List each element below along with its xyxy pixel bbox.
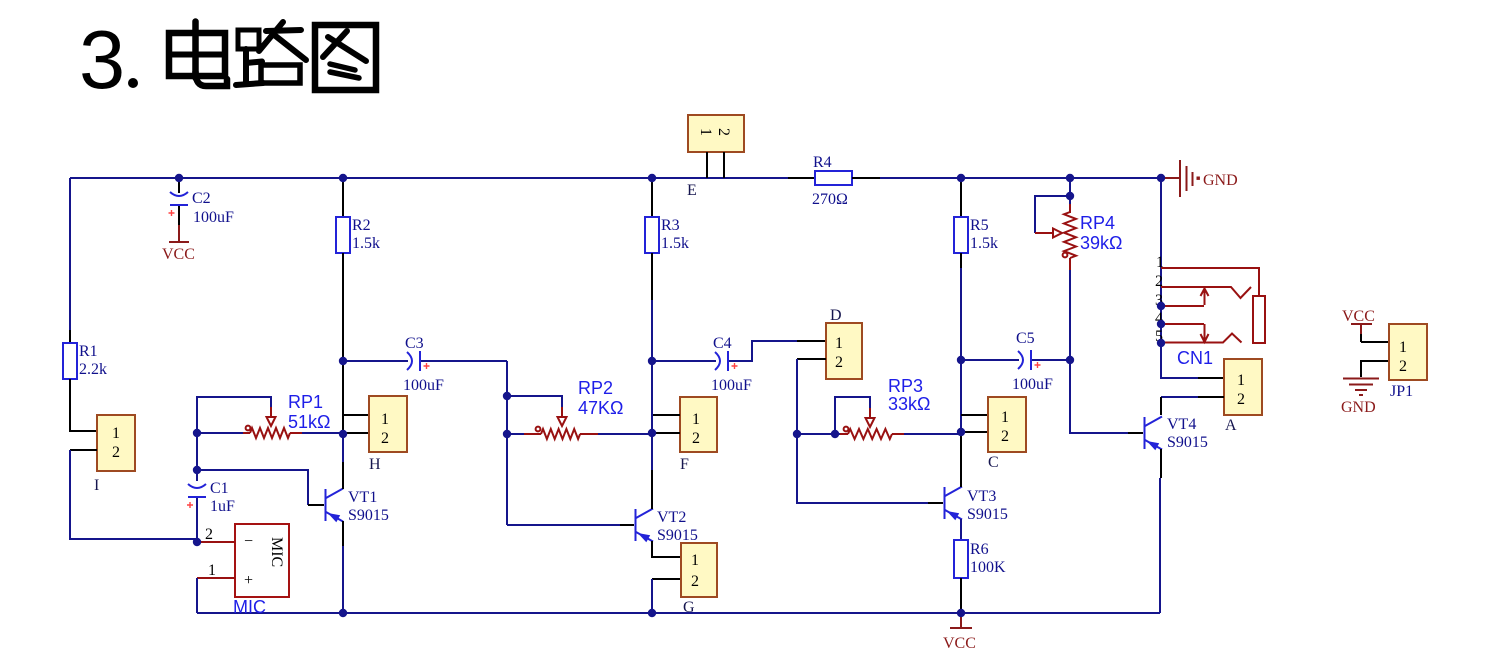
wire R1 black leads: [69, 330, 71, 343]
svg-text:39kΩ: 39kΩ: [1080, 233, 1122, 253]
svg-text:C: C: [988, 454, 999, 471]
svg-text:33kΩ: 33kΩ: [888, 394, 930, 414]
svg-text:−: −: [244, 533, 253, 550]
wire CN1 column: [1160, 178, 1162, 343]
connector F: [680, 397, 717, 473]
wire MIC pin2: [197, 526, 235, 543]
svg-text:1.5k: 1.5k: [970, 235, 998, 252]
svg-text:VT1: VT1: [348, 489, 377, 506]
svg-text:JP1: JP1: [1390, 383, 1413, 400]
svg-text:C4: C4: [713, 335, 732, 352]
wire R2 column upper: [342, 178, 344, 217]
svg-text:100uF: 100uF: [1012, 376, 1053, 393]
svg-text:2.2k: 2.2k: [79, 361, 107, 378]
transistor VT3: [945, 487, 1008, 524]
svg-text:RP3: RP3: [888, 376, 923, 396]
svg-text:A: A: [1225, 417, 1237, 434]
svg-text:1uF: 1uF: [210, 498, 235, 515]
svg-text:VCC: VCC: [943, 635, 976, 652]
svg-text:VCC: VCC: [1342, 308, 1375, 325]
wire MIC pin1: [197, 562, 235, 613]
wire C3 node down to H pins: [343, 361, 369, 434]
svg-text:R5: R5: [970, 217, 989, 234]
power VCC at C2: [162, 225, 195, 263]
resistor R1: [63, 343, 107, 379]
jack CN1 pin4 switch: [1155, 310, 1209, 342]
title glyph 路: [236, 22, 306, 85]
svg-text:3: 3: [79, 13, 125, 106]
svg-text:R2: R2: [352, 217, 371, 234]
svg-text:H: H: [369, 456, 381, 473]
svg-text:D: D: [830, 307, 842, 324]
svg-text:100uF: 100uF: [711, 377, 752, 394]
transistor VT1: [326, 489, 389, 525]
wire VT3 emitter: [960, 519, 962, 540]
wire I pin2 loop to C1 node: [70, 450, 197, 539]
svg-text:2: 2: [691, 573, 699, 590]
svg-text:100uF: 100uF: [193, 209, 234, 226]
microphone MIC: [233, 524, 289, 617]
svg-text:F: F: [680, 456, 689, 473]
wire R1 to connector I: [70, 379, 97, 431]
wire left drop: [69, 178, 71, 330]
svg-text:1.5k: 1.5k: [352, 235, 380, 252]
wire R2 to C3 node: [342, 253, 344, 361]
potentiometer RP3: [797, 376, 961, 439]
svg-text:1: 1: [1237, 372, 1245, 389]
wire CN1 to A pin1: [1161, 343, 1224, 378]
svg-text:G: G: [683, 599, 695, 616]
svg-text:2: 2: [715, 128, 732, 136]
jack CN1 pin3 switch: [1155, 289, 1209, 310]
svg-text:1: 1: [1001, 409, 1009, 426]
svg-text:2: 2: [381, 430, 389, 447]
capacitor C1: [187, 480, 235, 542]
svg-text:2: 2: [1399, 358, 1407, 375]
svg-text:S9015: S9015: [967, 506, 1008, 523]
wire R3 to C4 node: [651, 253, 653, 361]
svg-text:1: 1: [381, 411, 389, 428]
connector D: [826, 307, 862, 379]
connector JP1: [1389, 324, 1427, 400]
junction dots top rail: [175, 174, 1165, 182]
svg-text:2: 2: [692, 430, 700, 447]
wire RP4 to VT4 base: [1070, 360, 1143, 433]
wire VT3 collector: [960, 432, 962, 487]
svg-text:VT3: VT3: [967, 488, 996, 505]
svg-text:100uF: 100uF: [403, 377, 444, 394]
power VCC bottom: [943, 613, 976, 652]
svg-text:C2: C2: [192, 190, 211, 207]
wire VT2 collector: [651, 434, 653, 509]
svg-text:I: I: [94, 477, 99, 494]
svg-text:1: 1: [1156, 254, 1164, 271]
ground GND at JP1: [1341, 361, 1389, 416]
svg-text:R3: R3: [661, 217, 680, 234]
jack CN1 sleeve: [1253, 296, 1265, 343]
wire R6 to rail: [960, 578, 962, 613]
wire C4 node to F column: [651, 361, 653, 434]
transistor VT4: [1145, 416, 1208, 451]
capacitor C2: [169, 178, 235, 226]
wire VT1 collector: [342, 434, 344, 489]
svg-text:VT4: VT4: [1167, 416, 1196, 433]
resistor R2: [336, 217, 380, 253]
title glyph 图: [315, 25, 376, 90]
wire F pin stubs: [652, 415, 680, 433]
svg-text:2: 2: [205, 526, 213, 543]
svg-text:1: 1: [835, 335, 843, 352]
svg-text:RP2: RP2: [578, 378, 613, 398]
svg-text:2: 2: [1237, 391, 1245, 408]
svg-text:2: 2: [1001, 428, 1009, 445]
svg-text:1: 1: [1399, 339, 1407, 356]
wire R5 to C5 node: [960, 253, 962, 360]
svg-text:E: E: [687, 182, 697, 199]
connector I: [94, 415, 135, 494]
svg-text:2: 2: [112, 444, 120, 461]
wire A pin2 to VT4 collector: [1161, 397, 1224, 415]
wire R5 column upper: [960, 178, 962, 217]
wire top rail: [70, 177, 1161, 179]
svg-text:C5: C5: [1016, 330, 1035, 347]
resistor R4: [788, 154, 880, 208]
svg-text:2: 2: [835, 354, 843, 371]
svg-text:S9015: S9015: [1167, 434, 1208, 451]
connector H: [369, 396, 407, 473]
connector A: [1224, 359, 1262, 434]
resistor R5: [954, 217, 998, 253]
svg-text:R6: R6: [970, 541, 989, 558]
wire bottom rail: [197, 612, 1160, 614]
svg-text:S9015: S9015: [657, 527, 698, 544]
connector E: [687, 115, 744, 199]
svg-text:1: 1: [208, 562, 216, 579]
svg-text:R1: R1: [79, 343, 98, 360]
svg-text:47KΩ: 47KΩ: [578, 398, 623, 418]
wire VT4 emitter: [1160, 449, 1161, 613]
power VCC at JP1: [1342, 308, 1389, 342]
jack CN1 pin1: [1156, 254, 1259, 296]
svg-text:RP1: RP1: [288, 392, 323, 412]
wire R3 column upper: [651, 178, 653, 217]
svg-text:C1: C1: [210, 480, 229, 497]
svg-text:+: +: [244, 572, 253, 589]
wire VT3 base feed: [797, 434, 943, 503]
svg-text:1.5k: 1.5k: [661, 235, 689, 252]
svg-text:100K: 100K: [970, 559, 1006, 576]
svg-text:CN1: CN1: [1177, 348, 1213, 368]
svg-text:1: 1: [692, 411, 700, 428]
ground GND top right: [1161, 160, 1238, 197]
svg-text:GND: GND: [1203, 172, 1238, 189]
potentiometer RP1: [197, 392, 343, 438]
resistor R6: [954, 540, 1006, 578]
wire C3 output column: [506, 361, 508, 525]
wire VT2 base feed: [507, 524, 634, 526]
svg-text:S9015: S9015: [348, 507, 389, 524]
wire D pin2 column: [797, 359, 826, 503]
transistor VT2: [636, 509, 698, 545]
svg-text:GND: GND: [1341, 399, 1376, 416]
junction dots mid nodes: [193, 192, 1165, 546]
svg-text:270Ω: 270Ω: [812, 191, 848, 208]
wire VT1 base feed: [197, 470, 324, 505]
svg-text:51kΩ: 51kΩ: [288, 412, 330, 432]
svg-text:1: 1: [112, 425, 120, 442]
jack CN1 pin2 contact: [1155, 273, 1251, 298]
junction dots bottom rail: [339, 609, 965, 617]
svg-text:VCC: VCC: [162, 246, 195, 263]
svg-text:R4: R4: [813, 154, 832, 171]
resistor R3: [645, 217, 689, 253]
jack CN1 pin5 contact: [1155, 328, 1242, 345]
svg-text:1: 1: [697, 128, 714, 136]
svg-text:VT2: VT2: [657, 509, 686, 526]
wire C5 node to C pins: [961, 360, 988, 432]
capacitor C5: [961, 330, 1070, 393]
svg-text:MIC: MIC: [233, 597, 266, 617]
connector G: [681, 543, 717, 616]
svg-text:2: 2: [1155, 273, 1163, 290]
svg-text:C3: C3: [405, 335, 424, 352]
svg-text:RP4: RP4: [1080, 213, 1115, 233]
wire VT2 emitter to G: [652, 541, 681, 613]
wire C1 column: [196, 433, 198, 481]
capacitor C3: [343, 335, 507, 394]
potentiometer RP2: [507, 378, 652, 439]
svg-text:MIC: MIC: [268, 537, 285, 567]
capacitor C4: [652, 335, 826, 394]
title glyph 电: [169, 22, 227, 87]
wire VT1 emitter: [342, 521, 344, 613]
svg-text:1: 1: [691, 552, 699, 569]
title text 3.: [79, 13, 138, 106]
connector C: [988, 397, 1026, 471]
potentiometer RP4: [1035, 178, 1122, 360]
